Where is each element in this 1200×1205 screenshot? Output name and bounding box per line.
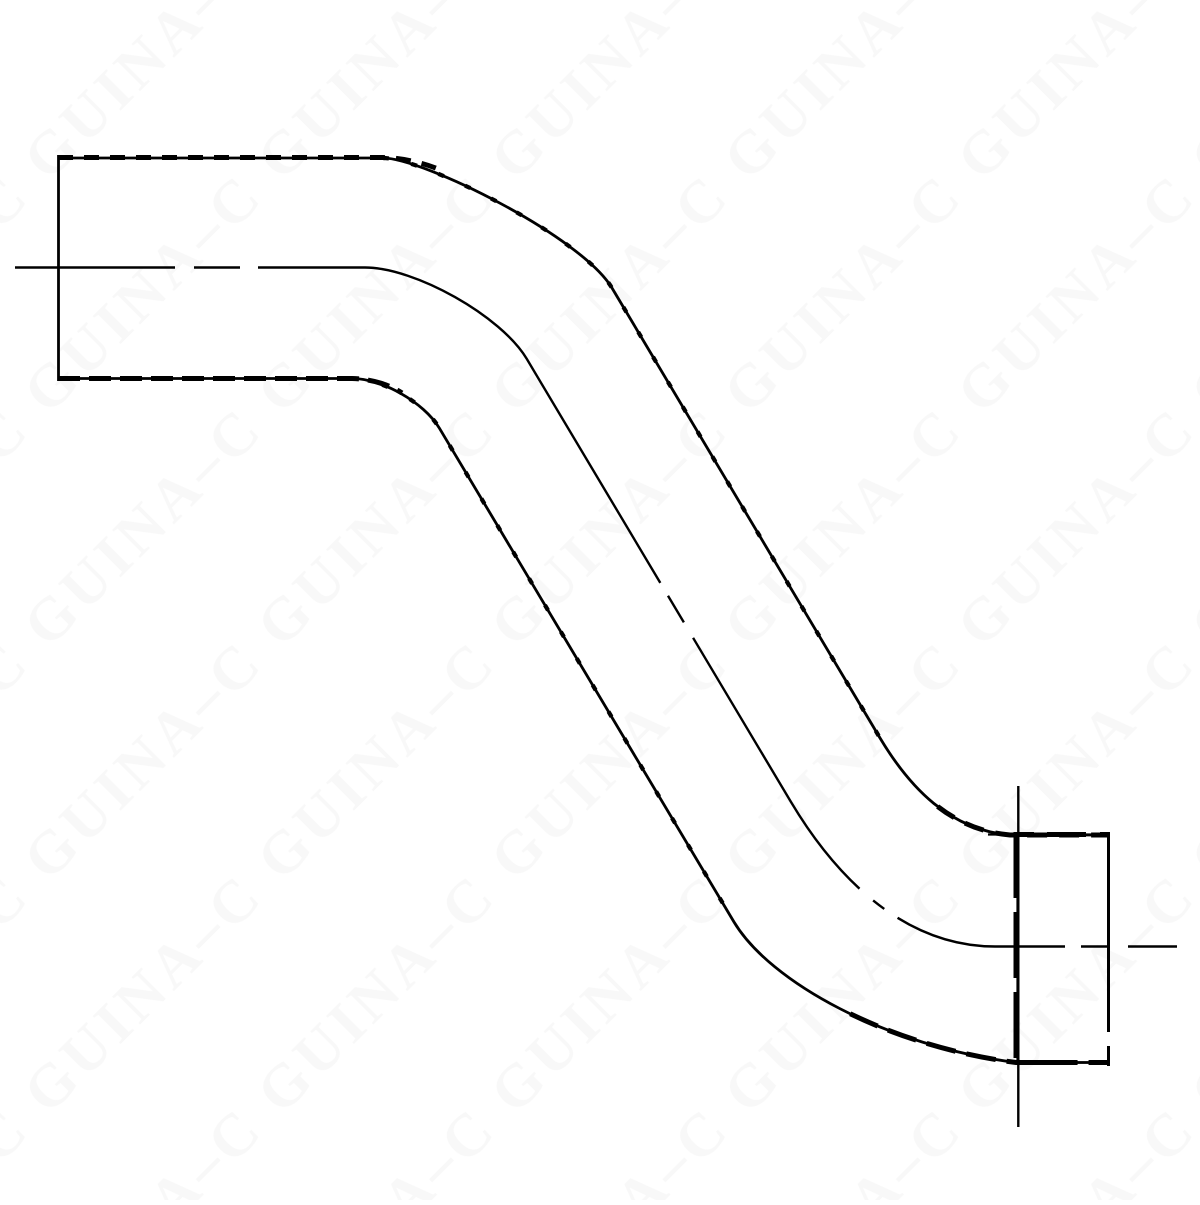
bottom outline thin base <box>58 379 1110 1063</box>
bottom outline thick dashes on straight <box>58 379 402 394</box>
top outline thick dashes on straight <box>58 158 443 172</box>
left end cap vertical line <box>57 155 60 381</box>
bottom edge thin base <box>1016 1061 1110 1063</box>
right edge <box>1107 832 1110 1066</box>
centreline: main curve with dash-dot pattern <box>258 268 1065 947</box>
vertical crosshair at right end <box>1017 786 1019 1127</box>
top edge thick dashes <box>1016 832 1110 837</box>
centreline: left horizontal pieces <box>15 266 175 268</box>
top outline thick dashes near right end <box>880 738 1110 835</box>
top outline thin base (straight + bend + diagonal + flat) <box>58 158 1110 835</box>
jagged texture overlay on top outline diagonal <box>383 158 880 738</box>
centreline: right horizontal pieces <box>1081 945 1110 947</box>
top edge thin base <box>988 833 1110 835</box>
bottom edge thick dashes <box>1020 1060 1110 1065</box>
jagged texture overlay on bottom outline diagonal <box>352 379 734 923</box>
left edge thin continuous <box>1016 832 1018 1062</box>
left edge thick dashed <box>1014 832 1020 1062</box>
bottom outline thick dashes near right end <box>734 922 1110 1063</box>
